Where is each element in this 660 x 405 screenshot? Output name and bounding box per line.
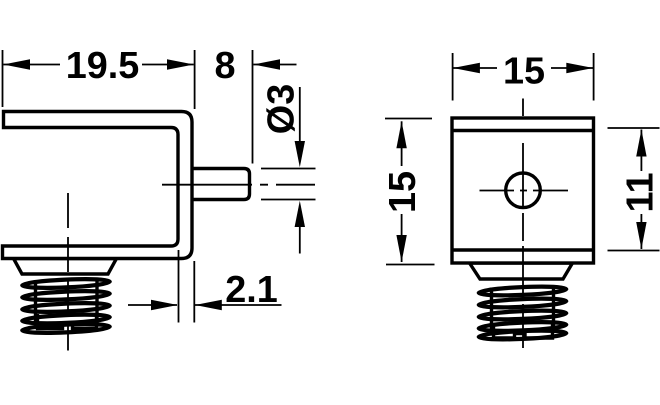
svg-text:2.1: 2.1 <box>225 269 278 311</box>
dimension 2.1 : extension lines <box>178 250 180 323</box>
screw threads (right view) <box>479 285 567 341</box>
svg-text:8: 8 <box>214 45 235 87</box>
svg-text:15: 15 <box>382 171 424 213</box>
thread root lines (left view) <box>34 280 37 323</box>
vertical center line (right view) <box>522 99 524 349</box>
thread root lines (right view) <box>490 288 493 331</box>
dimension D3 : extension lines <box>261 168 316 170</box>
dimension 15 top : line + arrows <box>453 67 497 69</box>
svg-text:19.5: 19.5 <box>66 45 140 87</box>
screw bottom core (right view) <box>494 323 553 338</box>
pin (Ø3 stud, left view) <box>191 169 250 200</box>
screw flange (right view) <box>470 263 573 279</box>
screw threads (left view) <box>22 278 110 335</box>
dimension 11 right : line + arrows <box>640 130 642 172</box>
dimension 8 : right arrow <box>253 59 280 69</box>
dimension 2.1 : arrows <box>128 304 177 306</box>
dimension 11 right : extension lines <box>608 127 660 129</box>
dimension 15 top : extension lines <box>452 53 454 101</box>
svg-text:11: 11 <box>620 173 660 213</box>
pin horizontal center line (left view) <box>162 184 315 186</box>
dimension 19.5 / 8 : extension lines <box>2 50 4 107</box>
inner top line <box>452 129 594 132</box>
dimension D3 : arrows <box>299 87 301 141</box>
center hole circle <box>506 173 541 208</box>
screw vertical center line (left view) <box>67 193 69 351</box>
dimension 19.5 : line + arrows <box>3 64 60 66</box>
horizontal center line (right view) <box>480 190 515 192</box>
dimension 15 left : line + arrows <box>401 121 403 166</box>
inner bottom line <box>452 248 594 251</box>
svg-text:15: 15 <box>503 51 545 93</box>
svg-text:Ø3: Ø3 <box>261 84 303 134</box>
body square (right view) <box>452 118 594 263</box>
screw bottom core (left view) <box>38 314 97 329</box>
bracket body (C-channel, left view) <box>3 112 193 259</box>
screw flange (left view) <box>14 259 117 275</box>
dimension 15 left : extension lines <box>385 118 432 120</box>
